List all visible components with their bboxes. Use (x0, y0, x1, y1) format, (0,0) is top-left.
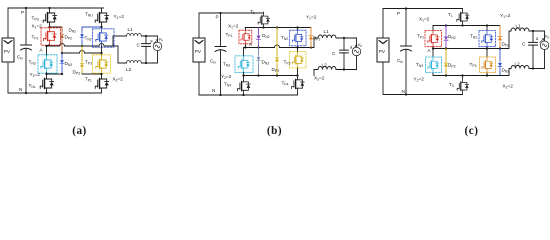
capacitor C branch (145, 36, 147, 63)
junction dot A / DN2 (445, 47, 447, 49)
arrow vo (540, 39, 544, 43)
junction dot lower rail / TP3 (486, 74, 488, 76)
svg-text:a: a (350, 45, 353, 50)
wire top rail P (199, 12, 264, 14)
transistor TNL (40, 74, 54, 93)
capacitor Cin (25, 8, 27, 93)
svg-text:TN2: TN2 (281, 35, 288, 41)
svg-text:A: A (249, 42, 253, 47)
svg-text:TNU: TNU (85, 12, 93, 18)
diode DP3 branch (81, 46, 83, 74)
svg-text:Y1=2: Y1=2 (114, 14, 125, 20)
svg-text:TP1: TP1 (32, 35, 39, 41)
svg-text:Y1=2: Y1=2 (500, 13, 511, 19)
svg-text:DN3: DN3 (262, 60, 270, 66)
svg-text:PV: PV (195, 49, 202, 54)
inductor L1 (318, 35, 336, 38)
svg-text:TN2: TN2 (85, 36, 92, 42)
svg-text:L1: L1 (128, 27, 134, 32)
diode DP3 (yellow) (445, 49, 447, 76)
svg-text:DP2: DP2 (502, 42, 510, 48)
svg-text:TN2: TN2 (470, 34, 477, 40)
junction dot A / TP1 (432, 47, 434, 49)
diode DP3 (yellow) (276, 28, 278, 76)
junction dot top rail / TPU (48, 7, 50, 9)
diode DN3 (grey) (258, 48, 260, 76)
svg-text:T1: T1 (448, 12, 453, 18)
junction dot upper rail / TN2 (296, 26, 298, 28)
svg-text:P: P (21, 10, 24, 15)
svg-text:Y2=2: Y2=2 (414, 77, 425, 83)
inductor L1 (511, 28, 529, 31)
svg-text:a: a (150, 39, 153, 44)
diode DP2 (orange) (310, 28, 312, 48)
wire lower rail (433, 75, 500, 77)
svg-text:X2=2: X2=2 (503, 84, 514, 90)
svg-text:L2: L2 (322, 63, 328, 68)
transistor TPL (95, 74, 109, 93)
capacitor C branch (343, 38, 345, 70)
transistor T1 (258, 12, 269, 28)
wire L1 tap (113, 36, 127, 46)
wire TN2 source to rail2 (101, 45, 103, 53)
svg-text:P: P (216, 14, 219, 19)
diode DN3 (blue) (499, 49, 501, 76)
svg-text:(c): (c) (465, 125, 479, 137)
svg-text:PV: PV (4, 49, 11, 54)
wire middle rail 2 (62, 51, 102, 53)
transistor T1 (457, 9, 469, 26)
transistor TN3 (cyan) (235, 56, 253, 73)
wire to DP2 branch (50, 26, 63, 28)
junction dot C top (145, 35, 147, 37)
svg-text:Y2=2: Y2=2 (30, 72, 41, 78)
wire output bottom (529, 68, 545, 70)
junction dot C bottom (532, 67, 534, 69)
svg-text:(a): (a) (72, 125, 87, 137)
junction dot upper rail / DN2 (445, 24, 447, 26)
svg-text:TPU: TPU (32, 16, 40, 22)
junction dot C top (532, 30, 534, 32)
node between TPU and TP1 (48, 26, 50, 28)
svg-text:C: C (332, 51, 336, 56)
transistor TN3 (cyan) (432, 49, 434, 76)
junction dot rail1 left (45, 45, 47, 47)
junction dot DN3 bottom (61, 73, 63, 75)
svg-text:L2: L2 (515, 62, 521, 67)
wire node A rail (244, 45, 315, 56)
wire output top (336, 37, 357, 39)
junction dot C bottom (343, 68, 345, 70)
svg-text:DN2: DN2 (262, 33, 270, 39)
junction dot top rail / Cin (219, 12, 221, 14)
AC grid source (157, 36, 159, 63)
capacitor Cin (220, 13, 222, 95)
wire TN3 source to TNL (47, 73, 63, 75)
wire output top (142, 35, 158, 37)
svg-text:X1=2: X1=2 (228, 24, 239, 30)
junction dot rail m / DP3 (276, 74, 278, 76)
AC grid source (356, 38, 358, 70)
svg-text:L1: L1 (324, 29, 330, 34)
wire output top (529, 30, 545, 32)
wire output bottom (336, 69, 357, 71)
junction dot rail2 right (100, 52, 102, 54)
transistor TN2 (blue) (297, 28, 299, 48)
wire L2 tap (118, 46, 127, 63)
transistor TP3 (yellow) (297, 48, 299, 76)
svg-text:N: N (19, 87, 22, 92)
svg-text:TP3: TP3 (470, 62, 477, 68)
junction dot bottom rail / Cin (25, 92, 27, 94)
transistor TN2 (blue) (486, 26, 488, 49)
transistor TN2 (blue) (93, 29, 115, 47)
wire left PV bus (7, 8, 9, 93)
svg-text:TNL: TNL (29, 83, 36, 89)
junction dot C bottom (145, 62, 147, 64)
transistor TP3 (yellow) (101, 53, 103, 56)
wire left PV bus (198, 13, 200, 95)
svg-text:DN2: DN2 (448, 34, 456, 40)
svg-text:L1: L1 (516, 24, 522, 29)
svg-text:DP2: DP2 (65, 35, 73, 41)
node between TNU and TN2 (100, 26, 102, 28)
junction dot bottom rail / TN4 (242, 94, 244, 96)
transistor TP1 (red) (245, 28, 247, 48)
svg-text:vo: vo (358, 42, 362, 48)
svg-text:N: N (402, 89, 405, 94)
junction dot upper rail / TN2 (486, 24, 488, 26)
svg-text:Cin: Cin (210, 59, 216, 65)
wire middle rail 1 (47, 44, 119, 47)
junction dot rail2 left (61, 52, 63, 54)
svg-text:L2: L2 (126, 67, 132, 72)
wire L1 tap (314, 38, 318, 48)
junction dot A / DP2 (499, 47, 501, 49)
diode DN3 branch (61, 53, 63, 74)
PV module (377, 38, 389, 62)
junction dot bottom rail / Cin (219, 94, 221, 96)
svg-text:DP3: DP3 (448, 63, 456, 69)
svg-text:DP3: DP3 (73, 70, 81, 76)
wire L2 tap (500, 69, 511, 76)
svg-text:TN3: TN3 (416, 62, 423, 68)
junction dot TN3 / rail m (242, 74, 244, 76)
diode DP2 branch (61, 27, 63, 53)
svg-text:a: a (536, 36, 539, 41)
junction dot upper rail / DP3 (276, 26, 278, 28)
wire TN3 source (243, 72, 245, 77)
wire bottom rail N (8, 92, 102, 94)
junction dot lower rail / DP3 (445, 74, 447, 76)
svg-text:T4: T4 (449, 82, 454, 88)
PV module (193, 38, 205, 62)
svg-text:TN4: TN4 (224, 82, 231, 88)
arrow vo (353, 45, 357, 49)
wire middle rail m (244, 75, 298, 77)
junction dot TP3/TPL (100, 73, 102, 75)
transistor TP4 (292, 75, 305, 93)
junction dot A / TN2 (486, 47, 488, 49)
svg-text:Y2=2: Y2=2 (221, 74, 232, 80)
svg-text:A: A (428, 48, 432, 53)
wire top rail P (383, 8, 463, 10)
junction dot rail1 / DN2 (81, 45, 83, 47)
transistor TP3 (orange) (486, 49, 488, 76)
svg-text:N: N (212, 88, 215, 93)
svg-text:TP3: TP3 (85, 60, 92, 66)
svg-text:DN2: DN2 (69, 28, 77, 34)
inductor L2 (318, 67, 336, 70)
svg-text:T1: T1 (250, 9, 255, 15)
junction dot rail m / TP4 (296, 74, 298, 76)
junction dot top rail / Cin (25, 7, 27, 9)
transistor T4 (462, 76, 464, 95)
svg-text:TP1: TP1 (226, 32, 233, 38)
junction dot rail m / DN3 (257, 74, 259, 76)
wire upper rail (433, 25, 500, 27)
svg-text:DN3: DN3 (502, 68, 510, 74)
wire upper rail (245, 27, 311, 29)
junction dot A / DN2 (257, 46, 259, 48)
wire left PV bus (382, 9, 384, 95)
inductor L2 (127, 61, 142, 63)
wire bottom rail N (199, 94, 298, 96)
svg-text:TPL: TPL (85, 77, 92, 83)
node below T1 (461, 24, 463, 26)
junction dot lower rail / T4 (461, 74, 463, 76)
svg-text:Cin: Cin (397, 58, 403, 64)
wire TP4 source (297, 93, 299, 95)
svg-text:TN3: TN3 (29, 60, 36, 66)
transistor TN3 (cyan) (46, 46, 48, 56)
transistor TN4 (238, 77, 251, 95)
junction dot A / TP1 (244, 46, 246, 48)
svg-text:Y1=2: Y1=2 (306, 15, 317, 21)
transistor TNU (95, 8, 109, 27)
junction dot C top (343, 37, 345, 39)
svg-text:vo: vo (545, 34, 549, 40)
inductor L2 (511, 66, 529, 69)
svg-text:PV: PV (379, 49, 386, 54)
inductor L1 (127, 34, 142, 36)
svg-text:DP3: DP3 (272, 67, 280, 73)
svg-text:TN3: TN3 (223, 62, 230, 68)
svg-text:X1=2: X1=2 (419, 17, 430, 23)
svg-text:P: P (397, 11, 400, 16)
svg-text:X2=2: X2=2 (314, 76, 325, 82)
junction dot bottom rail / Cin (405, 93, 407, 95)
AC grid source (544, 31, 546, 69)
transistor TP1 (red) (41, 28, 61, 45)
svg-text:A: A (40, 48, 44, 53)
wire bottom rail N (383, 94, 463, 96)
arrow vo (154, 40, 158, 44)
junction dot A / DP2 branch (310, 46, 312, 48)
junction dot bottom rail / TNL (45, 92, 47, 94)
wire TP3 source node (82, 73, 102, 75)
svg-text:C: C (522, 42, 526, 47)
junction dot TN3/TNL (45, 73, 47, 75)
capacitor C branch (532, 31, 534, 69)
transistor TP1 (red) (432, 26, 434, 49)
svg-text:TP4: TP4 (282, 81, 289, 87)
svg-text:vo: vo (159, 36, 163, 42)
PV module (2, 38, 14, 62)
diode DN2 (purple) (258, 28, 260, 48)
node below T1 (262, 26, 264, 28)
svg-text:X2=2: X2=2 (113, 77, 124, 83)
junction dot A / TN2 branch (296, 46, 298, 48)
junction dot top rail / Cin (405, 7, 407, 9)
svg-text:DN3: DN3 (65, 61, 73, 67)
wire node A rail (433, 48, 509, 50)
svg-text:TP1: TP1 (417, 34, 424, 40)
diode DN2 (purple) (445, 26, 447, 49)
svg-text:(b): (b) (267, 125, 282, 137)
capacitor Cin (405, 9, 407, 95)
wire L2 tap (314, 70, 318, 76)
wire TP1 source (47, 45, 50, 46)
diode DP2 (orange) (499, 26, 501, 49)
wire top rail P (8, 7, 104, 9)
wire L1 tap (509, 31, 511, 49)
diode DN2 branch (82, 27, 102, 46)
svg-text:Cin: Cin (17, 55, 23, 61)
wire output bottom (142, 62, 158, 64)
transistor TPU (43, 8, 57, 27)
svg-text:C: C (137, 43, 141, 48)
